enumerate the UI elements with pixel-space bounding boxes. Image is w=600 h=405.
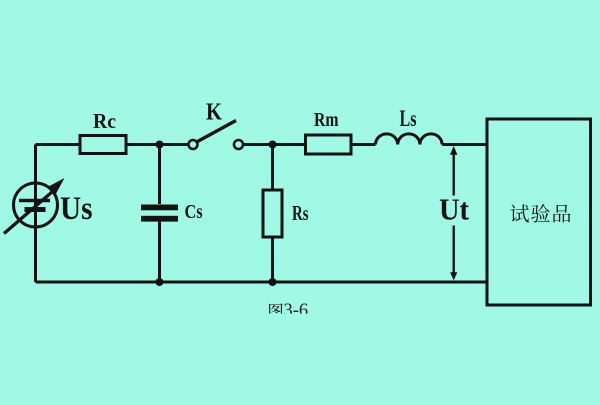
measurement arrow Ut lower head (450, 272, 457, 280)
svg-text:Rc: Rc (93, 109, 116, 133)
svg-text:Us: Us (60, 191, 93, 227)
inductor Ls (376, 134, 443, 145)
resistor Rm (306, 135, 352, 154)
svg-text:K: K (206, 100, 222, 126)
switch K left contact (189, 140, 198, 149)
resistor Rs (263, 190, 282, 237)
node: junction of top bus and Rs branch (269, 141, 277, 149)
test object box (487, 119, 591, 305)
svg-text:Rs: Rs (292, 201, 309, 225)
label Ut (439, 193, 470, 227)
svg-text:Ls: Ls (400, 106, 417, 131)
switch K blade (198, 121, 237, 142)
capacitor Cs top plate (141, 205, 178, 211)
label 试验品 char 试 (510, 204, 529, 222)
measurement arrow Ut lower shaft (453, 226, 455, 273)
wire: Cs branch vertical upper (158, 145, 161, 205)
label 试验品 char 验 (531, 204, 550, 222)
measurement arrow Ut upper shaft (453, 155, 455, 196)
label Ls (400, 106, 417, 131)
svg-text:Ut: Ut (439, 193, 470, 227)
label Cs (185, 201, 203, 223)
source Us circle (14, 183, 58, 227)
node: Cs bottom junction (156, 278, 164, 286)
wire: bottom bus (36, 281, 488, 284)
source Us battery long plate (19, 199, 50, 202)
capacitor Cs bottom plate (141, 216, 178, 222)
label 试验品 char 品 (553, 205, 570, 223)
svg-text:3-6: 3-6 (284, 301, 309, 321)
svg-text:Rm: Rm (314, 109, 339, 131)
wire: Rc to switch K (126, 143, 189, 146)
resistor Rc (80, 136, 126, 154)
wire: left branch through source Us (34, 145, 37, 283)
label Rm (314, 109, 339, 131)
source Us battery short plate (25, 207, 46, 212)
svg-text:Cs: Cs (185, 201, 203, 223)
wire: Ls to test object box (442, 143, 487, 146)
node: junction of top bus and Cs branch (156, 141, 164, 149)
wire: top bus from source to Rc (36, 143, 81, 146)
measurement arrow Ut upper head (450, 146, 457, 155)
wire: Rm to Ls (351, 143, 376, 146)
caption 图3-6 (bottom-clipped) (269, 301, 308, 321)
wire: switch to Rm (243, 143, 306, 146)
label Rs (292, 201, 309, 225)
wire: Rs branch upper (271, 145, 274, 191)
label Us (60, 191, 93, 227)
label Rc (93, 109, 116, 133)
switch K right contact (234, 140, 243, 149)
label K (206, 100, 222, 126)
source Us variability arrow head (48, 178, 65, 196)
source Us variability arrow shaft (4, 189, 56, 234)
wire: Cs to bottom bus (158, 222, 161, 282)
wire: Rs to bottom bus (271, 237, 274, 282)
node: Rs bottom junction (269, 278, 277, 286)
